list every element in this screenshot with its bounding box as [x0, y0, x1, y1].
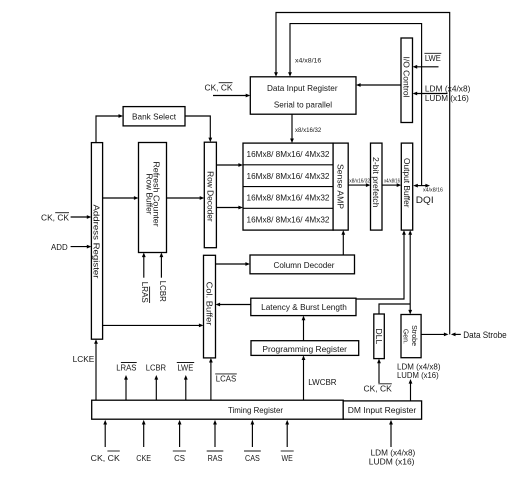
svg-text:16Mx8/ 8Mx16/ 4Mx32: 16Mx8/ 8Mx16/ 4Mx32 — [247, 172, 331, 181]
block U6 Row Decoder — [204, 142, 216, 248]
svg-text:LDM (x4/x8): LDM (x4/x8) — [425, 84, 471, 94]
svg-text:Address Register: Address Register — [92, 205, 102, 279]
block U16 Strobe Gen — [401, 315, 421, 358]
svg-text:LCKE: LCKE — [73, 354, 95, 364]
wire Timing Register to Programming Register LWCBR — [302, 355, 306, 400]
block U1 Data Input Register — [250, 77, 356, 114]
svg-text:Data Input Register: Data Input Register — [267, 83, 338, 93]
svg-text:WE: WE — [282, 453, 294, 463]
label CK,CKn at Address Register — [41, 213, 69, 223]
wire Strobe Gen to Data Strobe — [421, 333, 461, 337]
wire CK into DLL — [377, 359, 381, 383]
svg-text:Column Decoder: Column Decoder — [274, 260, 335, 270]
svg-text:CK, CK: CK, CK — [205, 83, 233, 93]
svg-text:RAS: RAS — [208, 453, 223, 463]
svg-text:CKE: CKE — [136, 453, 151, 463]
wire LCBR arrow to labels — [154, 375, 158, 400]
svg-text:Gen.: Gen. — [402, 329, 411, 344]
label bottom CASn — [244, 451, 261, 463]
wire Timing Register to Col Buffer LCAS — [209, 358, 213, 400]
wire ADD input to Address Register — [71, 245, 92, 249]
label bottom CK,CKn — [91, 451, 120, 463]
wire Timing Register bottom input CKE — [142, 420, 146, 447]
label LWE above Timing Register — [177, 362, 194, 372]
wire DM Input Register bottom input LDM — [389, 420, 393, 447]
svg-text:LUDM (x16): LUDM (x16) — [397, 370, 439, 380]
wire Address Register to Refresh Counter — [103, 196, 139, 200]
wire Row Decoder to bank row 3 — [216, 206, 243, 210]
wire top feedback outer — [274, 13, 450, 335]
wire DLL to Output Buffer and Strobe Gen — [379, 230, 412, 314]
wire top feedback inner — [288, 24, 422, 186]
wire Col Buffer to Column Decoder — [216, 262, 251, 266]
label bottom CSn — [173, 451, 186, 463]
wire Programming Register to Latency — [302, 316, 306, 341]
svg-text:16Mx8/ 8Mx16/ 4Mx32: 16Mx8/ 8Mx16/ 4Mx32 — [247, 194, 331, 203]
label bottom LDM LUDM — [369, 447, 416, 466]
block U4 Address Register — [91, 143, 102, 340]
block U2 I/O Control — [401, 38, 413, 123]
wire Latency to Col Buffer — [216, 303, 251, 307]
block U12 Column Decoder — [250, 255, 355, 274]
svg-text:I/O Control: I/O Control — [402, 57, 412, 98]
svg-text:DM Input Register: DM Input Register — [348, 405, 417, 415]
label CK,CKn at Data Input Register — [205, 83, 233, 93]
svg-text:CK, CK: CK, CK — [364, 384, 393, 394]
wire Address Register to Bank Select — [96, 114, 123, 143]
wire LWE into I/O Control — [413, 65, 439, 69]
label LDM LUDM right — [425, 84, 471, 104]
block U15 DLL — [374, 314, 385, 359]
block U14 Programming Register — [251, 341, 359, 356]
wire DM Input Register to Strobe Gen labels — [409, 379, 413, 401]
block U8 Sense AMP — [333, 143, 348, 230]
svg-text:Serial to parallel: Serial to parallel — [274, 100, 332, 110]
wire Timing Register bottom input CK — [103, 420, 107, 447]
label CK,CKn at DLL — [364, 384, 393, 394]
svg-text:Row Decoder: Row Decoder — [205, 171, 215, 222]
wire LRAS into Refresh Counter — [142, 253, 146, 278]
wire DQ bidirectional stub — [413, 184, 430, 188]
svg-text:Bank Select: Bank Select — [132, 112, 177, 122]
svg-text:LWE: LWE — [177, 362, 193, 372]
wire Timing Register bottom input CS — [178, 420, 182, 447]
svg-text:ADD: ADD — [51, 242, 68, 252]
wire LDM/LUDM into I/O Control — [413, 92, 448, 96]
wire Data Input Register to memory array — [290, 114, 294, 143]
label LCAS — [215, 374, 237, 384]
block U9 2-bit prefetch — [371, 143, 383, 230]
block U7 memory array 4 banks — [243, 143, 333, 230]
label bottom WEn — [281, 451, 294, 463]
svg-text:CK, CK: CK, CK — [41, 213, 69, 223]
svg-text:16Mx8/ 8Mx16/ 4Mx32: 16Mx8/ 8Mx16/ 4Mx32 — [247, 216, 331, 225]
svg-text:CAS: CAS — [245, 453, 260, 463]
wire I/O Control to Data Input Register — [356, 83, 401, 87]
wire Timing Register to Address Register LCKE — [94, 339, 98, 400]
svg-text:LUDM (x16): LUDM (x16) — [425, 93, 469, 103]
label LRAS above Timing Register — [116, 362, 137, 372]
wire Refresh Counter to Row Decoder — [167, 196, 205, 200]
wire Latency to Output Buffer — [356, 230, 406, 299]
svg-text:2-bit prefetch: 2-bit prefetch — [371, 157, 381, 208]
svg-text:DLL: DLL — [374, 328, 384, 344]
block U10 Output Buffer — [401, 143, 412, 230]
svg-text:Col. Buffer: Col. Buffer — [205, 282, 215, 326]
svg-text:LUDM (x16): LUDM (x16) — [369, 456, 415, 466]
wire Timing Register bottom input WE — [285, 420, 289, 447]
wire LCBR into Refresh Counter — [160, 253, 164, 278]
wire Sense AMP to 2-bit prefetch — [348, 183, 370, 187]
svg-text:Output Buffer: Output Buffer — [402, 158, 412, 208]
wire Timing Register bottom input CAS — [251, 420, 255, 447]
svg-text:x4/x8/16: x4/x8/16 — [384, 178, 400, 184]
svg-text:x8/x16/32: x8/x16/32 — [295, 127, 322, 134]
wire LRAS arrow to labels — [124, 375, 128, 400]
svg-text:CK, CK: CK, CK — [91, 453, 120, 463]
svg-text:Timing Register: Timing Register — [228, 405, 283, 415]
svg-text:LCBR: LCBR — [158, 281, 168, 302]
wire Bank Select to Row Decoder — [185, 116, 212, 142]
svg-text:LRAS: LRAS — [140, 282, 150, 303]
svg-text:CS: CS — [174, 453, 185, 463]
label LWE top right — [424, 53, 441, 63]
wire 2-bit prefetch to Output Buffer — [382, 183, 401, 187]
wire Address Register to Col Buffer — [103, 324, 204, 328]
block U5 Refresh Counter / Row Buffer — [139, 143, 167, 253]
svg-text:LWCBR: LWCBR — [308, 377, 336, 387]
svg-text:x4/x8/16: x4/x8/16 — [423, 188, 443, 194]
svg-text:x4/x8/16: x4/x8/16 — [295, 58, 322, 65]
svg-text:LRAS: LRAS — [116, 362, 136, 372]
block U13 Latency and Burst Length — [251, 298, 356, 315]
wire Column Decoder to Sense AMP — [341, 230, 345, 255]
svg-text:16Mx8/ 8Mx16/ 4Mx32: 16Mx8/ 8Mx16/ 4Mx32 — [247, 150, 331, 159]
svg-text:LCBR: LCBR — [146, 362, 166, 372]
label LRAS rotated under Refresh Counter — [140, 282, 150, 303]
svg-text:LWE: LWE — [425, 53, 441, 63]
svg-text:DQI: DQI — [416, 195, 434, 205]
svg-text:Row Buffer: Row Buffer — [144, 174, 154, 215]
svg-text:Programming Register: Programming Register — [262, 344, 347, 354]
block U18 DM Input Register — [343, 401, 421, 419]
block U11 Col. Buffer — [204, 255, 216, 358]
wire Row Decoder to bank row 1 — [216, 163, 243, 167]
block U17 Timing Register — [92, 400, 344, 419]
wire Timing Register bottom input RAS — [213, 420, 217, 447]
block U3 Bank Select — [123, 107, 185, 126]
svg-text:LCAS: LCAS — [216, 374, 237, 384]
svg-text:x8/x16/32: x8/x16/32 — [349, 178, 370, 184]
label bottom RASn — [207, 451, 224, 463]
wire CK input to Address Register — [71, 215, 92, 219]
svg-text:Data Strobe: Data Strobe — [463, 330, 506, 340]
label LDM LUDM at Strobe Gen — [397, 362, 441, 380]
svg-text:Latency & Burst Length: Latency & Burst Length — [261, 302, 347, 312]
svg-text:Sense AMP: Sense AMP — [336, 164, 346, 209]
wire LWE arrow to labels — [184, 375, 188, 400]
wire CK input to Data Input Register — [213, 94, 250, 98]
